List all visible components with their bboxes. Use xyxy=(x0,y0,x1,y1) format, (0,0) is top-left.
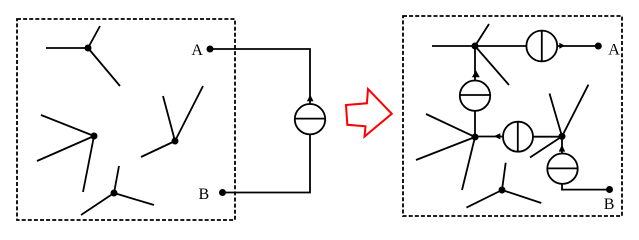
junction J1 xyxy=(46,26,120,86)
node B (right) xyxy=(604,186,615,213)
right dashed network box xyxy=(403,16,622,216)
wire S1 to N2 xyxy=(474,111,476,137)
current source S0 (left port equivalent) xyxy=(295,95,325,135)
wire N1 to source S1 xyxy=(474,46,476,81)
wire N2 to source S2 xyxy=(475,136,504,138)
wire source to B (left) xyxy=(225,134,310,192)
wire SA to node A xyxy=(557,45,596,47)
node B (left) xyxy=(199,186,227,203)
svg-text:A: A xyxy=(191,42,203,59)
wire N3 to source S3 xyxy=(561,136,563,154)
junction N3 xyxy=(530,85,588,158)
junction J3 xyxy=(141,86,203,157)
left dashed network box xyxy=(17,19,235,220)
svg-text:B: B xyxy=(604,196,615,213)
wire A to source (left) xyxy=(212,49,310,105)
wire S2 to N3 xyxy=(533,136,562,138)
node A (right) xyxy=(595,42,620,59)
junction N4 xyxy=(467,163,542,208)
svg-text:B: B xyxy=(199,186,210,203)
junction J4 xyxy=(81,166,154,215)
red transform arrow xyxy=(346,89,392,137)
wire S3 to node B xyxy=(562,184,607,190)
junction J2 xyxy=(37,115,98,192)
current source S2 (horizontal, arrow left) xyxy=(494,122,533,152)
junction N1 xyxy=(432,24,509,85)
junction N2 xyxy=(416,114,479,190)
svg-text:A: A xyxy=(608,42,620,59)
current source SA (toward A) xyxy=(526,31,565,62)
wire N1 to source SA xyxy=(475,45,526,47)
current source S1 (vertical, arrow up) xyxy=(460,70,490,111)
current source S3 (vertical, arrow up) xyxy=(547,145,577,184)
node A (left) xyxy=(191,42,213,59)
